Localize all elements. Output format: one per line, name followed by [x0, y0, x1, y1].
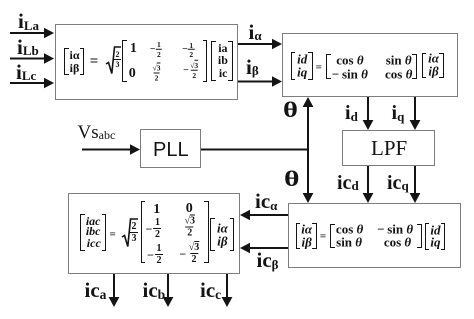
label ic_c	[200, 280, 221, 301]
U2 vector [i-alpha; i-beta]	[422, 53, 427, 79]
block: Clarke transform (abc to alpha-beta) box U1	[55, 24, 238, 100]
U4 matrix cells	[153, 203, 160, 217]
U2 matrix bracket right	[412, 54, 417, 79]
wire ic_alpha from U3 to U4	[240, 210, 288, 221]
U1 sqrt(2/3)	[105, 46, 122, 75]
wire ic_b output	[163, 274, 174, 307]
U4 sqrt(2/3)	[121, 218, 139, 248]
wire i_alpha from U1 to U2	[238, 39, 282, 50]
label LPF	[371, 138, 407, 159]
label iLa	[18, 11, 39, 32]
U3 matrix cells	[336, 223, 363, 236]
U3 vector [id; iq]	[425, 223, 430, 250]
label ic_a	[85, 280, 107, 301]
label ic_d	[337, 173, 359, 193]
label theta lower	[284, 168, 300, 190]
U4 equals sign	[109, 230, 115, 241]
label i_d	[345, 103, 358, 123]
label iLc	[16, 62, 36, 83]
U1 equals sign	[90, 54, 99, 69]
wire ic_beta from U3 to U4	[240, 243, 288, 254]
wire iLb input arrow	[10, 53, 54, 64]
wire i_beta from U1 to U2	[238, 76, 282, 87]
U1 vector [i-alpha; i-beta]	[64, 48, 69, 75]
U2 vector [id; iq]	[291, 52, 296, 81]
label i_q	[392, 103, 405, 123]
U4 matrix bracket left	[141, 201, 146, 262]
U3 equals sign	[320, 232, 326, 243]
label ic_alpha	[255, 191, 277, 212]
label PLL	[153, 140, 189, 160]
U1 matrix bracket left	[122, 40, 127, 82]
block: LPF box	[342, 130, 435, 166]
block: inverse Clarke transform (alpha-beta to abc) box U4	[68, 193, 240, 274]
label ic_b	[143, 280, 166, 301]
wire iLc input arrow	[10, 78, 54, 89]
wire i_q from U2 to LPF	[410, 97, 421, 130]
U3 vector [i-alpha; i-beta]	[296, 223, 301, 250]
wire PLL output to theta node	[201, 149, 308, 151]
block: PLL box	[140, 129, 201, 168]
U1 matrix cells	[130, 42, 137, 56]
U2 matrix cells	[336, 53, 363, 66]
U4 vector [iac; ibc; icc]	[80, 214, 85, 252]
wire iLa input arrow	[10, 28, 54, 39]
wire Vs_abc into PLL	[82, 144, 140, 155]
block: inverse Park transform (dq to alpha-beta) box U3	[288, 203, 461, 268]
label iLb	[17, 37, 39, 58]
label theta upper	[283, 99, 298, 121]
U2 equals sign	[316, 62, 322, 73]
U2 matrix bracket left	[326, 54, 331, 79]
label ic_beta	[257, 250, 279, 271]
wire i_d from U2 to LPF	[363, 97, 374, 130]
wire ic_a output	[109, 274, 120, 307]
label i_beta	[246, 57, 259, 78]
wire theta vertical with up arrow into U2 and down arrow into U3	[303, 97, 314, 203]
U3 matrix bracket left	[330, 224, 335, 249]
wire ic_d from LPF to U3	[363, 166, 374, 203]
block: Park transform (alpha-beta to dq) box U2	[282, 33, 458, 97]
label i_alpha	[249, 22, 262, 43]
label ic_q	[387, 173, 409, 193]
U4 vector [i-alpha; i-beta]	[210, 218, 215, 251]
U1 matrix bracket right	[203, 40, 208, 82]
U1 vector [ia; ib; ic]	[211, 41, 216, 81]
wire ic_q from LPF to U3	[410, 166, 421, 203]
wire ic_c output	[222, 274, 233, 307]
U3 matrix bracket right	[417, 224, 422, 249]
U4 matrix bracket right	[204, 201, 209, 262]
label Vs_abc	[78, 123, 116, 142]
